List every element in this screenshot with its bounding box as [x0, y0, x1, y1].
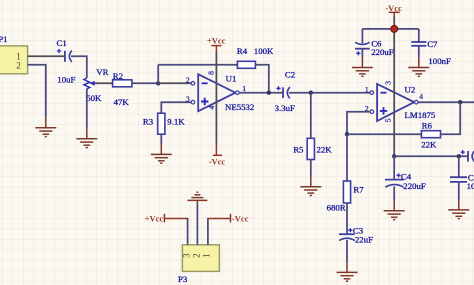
- svg-text:U2: U2: [405, 85, 416, 95]
- svg-text:2: 2: [186, 76, 190, 85]
- svg-text:C4: C4: [401, 171, 412, 181]
- svg-text:-Vcc: -Vcc: [232, 214, 249, 224]
- svg-text:R5: R5: [293, 145, 304, 155]
- wire P3 pin1 to -Vcc: [207, 219, 209, 245]
- svg-text:680R: 680R: [327, 203, 346, 213]
- wire down to C4: [393, 156, 395, 179]
- svg-text:10uF: 10uF: [57, 74, 75, 84]
- svg-text:4: 4: [419, 92, 423, 101]
- svg-text:3: 3: [186, 94, 190, 103]
- resistor R2 47K: [113, 71, 132, 107]
- wire C4 to ground: [393, 186, 395, 200]
- capacitor C2 3.3uF: [275, 70, 296, 113]
- capacitor C7 100nF: [411, 39, 451, 66]
- wire R6 left: [347, 133, 421, 135]
- svg-text:47K: 47K: [114, 97, 130, 107]
- potentiometer VR 50K: [84, 67, 109, 103]
- svg-text:R6: R6: [422, 120, 433, 130]
- wire VR bottom to ground: [86, 89, 88, 129]
- svg-text:P1: P1: [0, 34, 7, 44]
- svg-text:22uF: 22uF: [355, 235, 373, 245]
- resistor R5 22K: [293, 138, 332, 159]
- wire U1 pin3 to R3: [161, 102, 191, 113]
- wire VR wiper to R2: [95, 82, 113, 84]
- svg-text:R3: R3: [143, 116, 154, 126]
- wire U1 output to C2: [239, 92, 283, 94]
- wire pin5 node to right cap: [394, 155, 468, 157]
- capacitor C3 22uF: [339, 226, 373, 245]
- svg-text:+Vcc: +Vcc: [207, 36, 226, 46]
- U2 power rail vertical: [393, 29, 395, 156]
- ground under R3: [151, 144, 172, 163]
- ground under C7: [408, 58, 429, 77]
- node C5 branch: [457, 154, 461, 158]
- svg-text:1: 1: [201, 253, 211, 258]
- wire down to C7: [418, 29, 420, 42]
- capacitor C8 (cut at edge): [461, 150, 474, 162]
- svg-text:2: 2: [191, 253, 201, 258]
- svg-text:50K: 50K: [86, 93, 102, 103]
- ground under VR: [76, 129, 97, 148]
- wire R7 to C3: [346, 203, 348, 234]
- wire -Vcc rail to C6 and C7: [362, 28, 418, 30]
- wire C5 to ground: [458, 182, 460, 200]
- wire C3 to ground: [346, 240, 348, 263]
- wire P3 pin3 to +Vcc: [187, 219, 189, 245]
- earth ground (P3): [187, 192, 207, 203]
- svg-text:C2: C2: [285, 70, 295, 80]
- node at R2 / feedback junction: [156, 81, 160, 85]
- svg-text:22K: 22K: [317, 144, 333, 154]
- svg-text:R7: R7: [353, 185, 364, 195]
- svg-text:8: 8: [206, 71, 215, 75]
- wire junction to U1 pin2: [158, 82, 191, 84]
- ground under P1 pin2: [35, 118, 56, 137]
- svg-text:1: 1: [365, 85, 369, 94]
- wire -Vcc stem: [393, 17, 395, 26]
- wire U2 output to right edge: [418, 101, 474, 103]
- op-amp U2 LM1875: [365, 81, 436, 122]
- svg-text:9.1K: 9.1K: [167, 116, 185, 126]
- connector P1: [0, 34, 28, 74]
- wire P3 pin2 to earth: [196, 204, 198, 245]
- node feedback R6/R7: [345, 132, 349, 136]
- wire R4 to output node: [255, 65, 268, 93]
- svg-text:3.3uF: 3.3uF: [275, 103, 295, 113]
- wire down to C5: [458, 156, 460, 177]
- power port -Vcc (P3): [207, 214, 230, 223]
- ground under C6: [352, 58, 373, 77]
- power port +Vcc (U1): [211, 46, 221, 52]
- ground under R5: [300, 177, 321, 196]
- svg-text:R4: R4: [237, 46, 248, 56]
- power port +Vcc (P3): [164, 214, 188, 223]
- capacitor C5 100nF (cut at edge): [450, 173, 474, 192]
- svg-text:NE5532: NE5532: [225, 102, 254, 112]
- capacitor C1: [57, 38, 76, 84]
- wire R6 right up to output: [441, 102, 461, 134]
- wire feedback up: [157, 65, 159, 84]
- wire down to C6: [361, 29, 363, 44]
- svg-text:220uF: 220uF: [403, 181, 426, 191]
- wire down to R7: [346, 134, 348, 181]
- resistor R7 680R: [327, 181, 365, 213]
- svg-text:2: 2: [16, 61, 21, 71]
- wire R2 to junction: [132, 82, 158, 84]
- wire feedback to R4: [158, 64, 237, 66]
- ground under C5: [448, 200, 469, 219]
- svg-text:5: 5: [384, 118, 393, 122]
- op-amp U1 NE5532: [186, 71, 254, 112]
- ground under C3: [337, 262, 358, 281]
- node U1 output / R4: [267, 91, 271, 95]
- svg-text:C1: C1: [57, 38, 67, 48]
- power port -Vcc (U1): [213, 145, 222, 155]
- capacitor C6 220uF: [355, 38, 394, 57]
- svg-text:22K: 22K: [421, 140, 437, 150]
- connector P3: [178, 245, 219, 284]
- svg-text:LM1875: LM1875: [405, 110, 436, 120]
- capacitor C4 220uF: [385, 171, 426, 191]
- svg-text:+Vcc: +Vcc: [145, 214, 164, 224]
- svg-text:P3: P3: [178, 274, 188, 284]
- wire R3 to ground: [160, 134, 162, 144]
- node C2 / R5: [309, 91, 313, 95]
- svg-text:220uF: 220uF: [371, 47, 394, 57]
- svg-text:100nF: 100nF: [467, 181, 474, 191]
- svg-text:4: 4: [207, 105, 216, 109]
- resistor R3 9.1K: [143, 113, 185, 134]
- svg-text:U1: U1: [226, 73, 237, 83]
- node U2 pin5 / C4: [392, 154, 396, 158]
- wire P1 pin2 down: [28, 65, 46, 118]
- svg-text:100nF: 100nF: [428, 56, 451, 66]
- wire P1 pin1 to C1: [28, 55, 65, 57]
- svg-text:R2: R2: [113, 71, 123, 81]
- wire C2 to U2 pin1: [289, 92, 370, 94]
- ground under C4: [384, 201, 405, 220]
- svg-text:VR: VR: [96, 67, 108, 77]
- svg-text:C7: C7: [427, 39, 438, 49]
- svg-text:-Vcc: -Vcc: [385, 3, 402, 13]
- wire down to R5: [310, 93, 312, 139]
- wire C6 to ground: [361, 49, 363, 58]
- resistor R6 22K: [421, 120, 440, 149]
- wire C7 to ground: [418, 46, 420, 58]
- node -Vcc: [391, 26, 398, 33]
- U1 power rail vertical: [215, 52, 217, 146]
- svg-text:3: 3: [182, 253, 192, 258]
- svg-text:100K: 100K: [254, 46, 274, 56]
- resistor R4 100K: [237, 46, 274, 68]
- node U2 output / R6: [458, 100, 462, 104]
- wire U2 pin2 to feedback junction: [347, 112, 370, 135]
- power port -Vcc (top): [389, 12, 400, 16]
- svg-text:3: 3: [384, 81, 393, 85]
- wire R5 to ground: [310, 160, 312, 177]
- wire C1 to VR top: [71, 56, 87, 78]
- svg-text:-Vcc: -Vcc: [209, 156, 226, 166]
